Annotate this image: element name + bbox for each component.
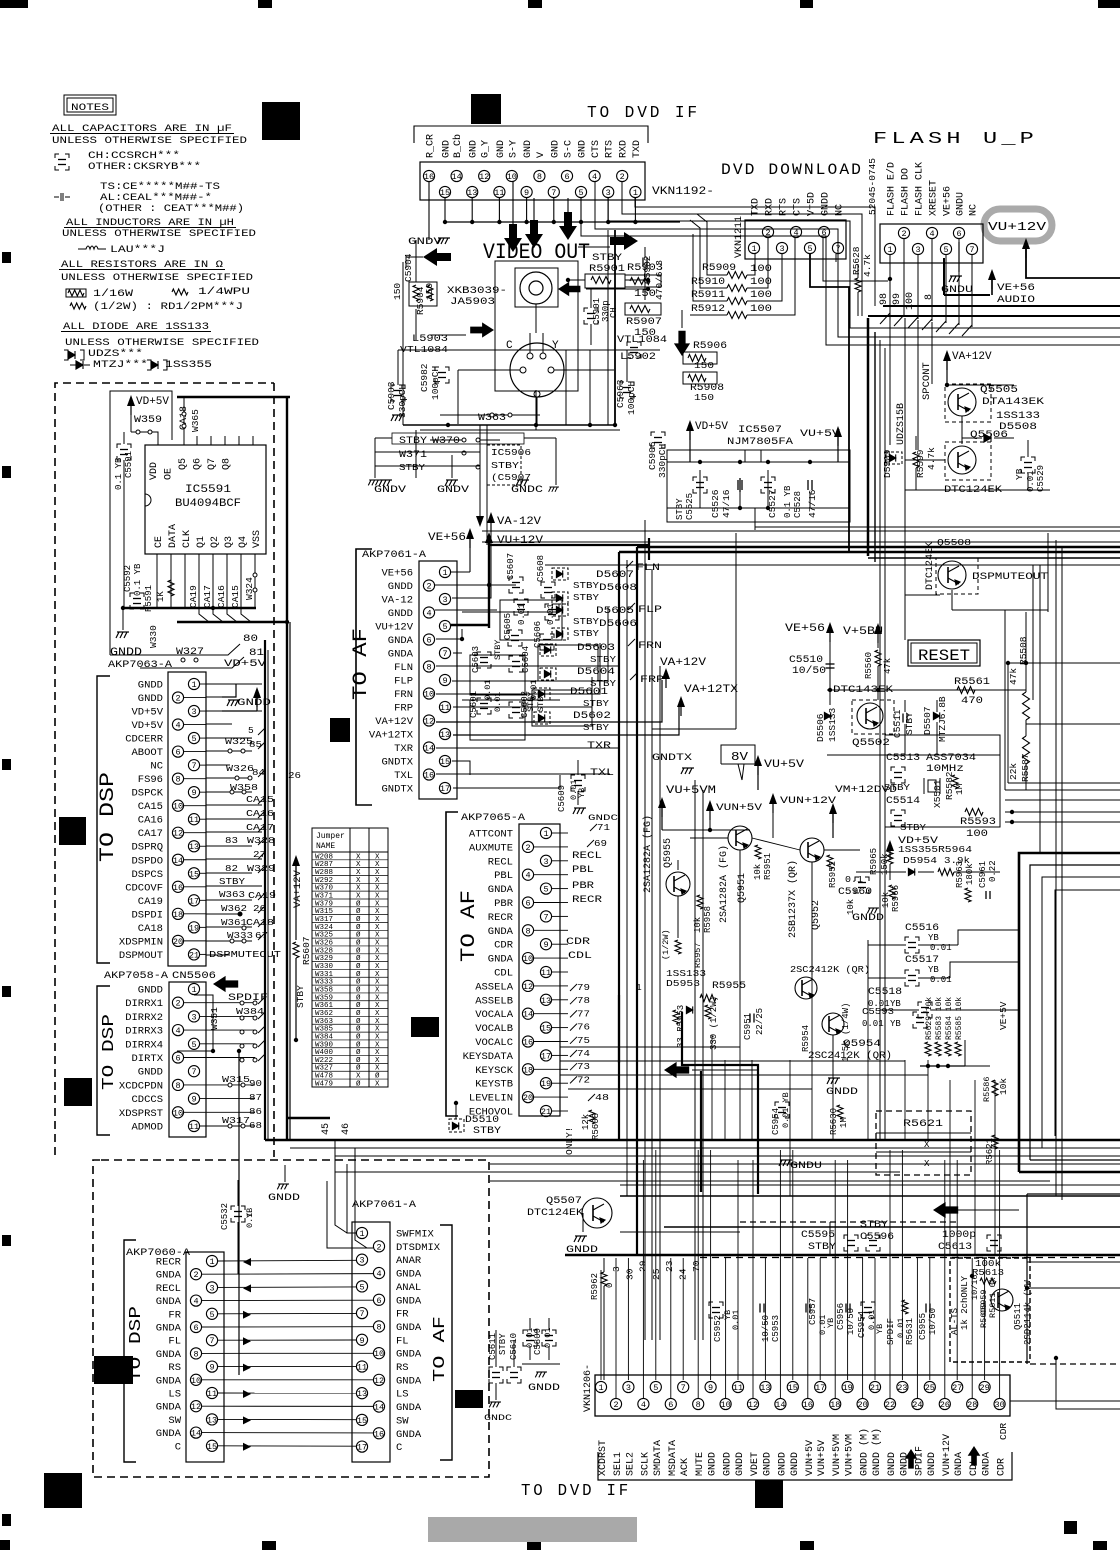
svg-text:VDD: VDD: [149, 462, 160, 480]
svg-text:X: X: [356, 869, 361, 877]
dashed stby line: [740, 1221, 960, 1223]
svg-text:B_Cb: B_Cb: [452, 134, 464, 158]
alignment square I: [455, 1390, 483, 1408]
svg-text:SEL2: SEL2: [625, 1452, 636, 1476]
connector VKN1206-: [595, 1375, 1010, 1416]
mid vertical bus: [618, 552, 620, 1140]
interconnect wires: [218, 1259, 356, 1262]
arrow into video: [423, 248, 451, 266]
svg-text:100: 100: [750, 304, 772, 315]
left vertical bus: [264, 640, 266, 1140]
heavy VU+12V runs: [489, 544, 649, 546]
svg-text:VTL1084: VTL1084: [617, 335, 667, 346]
svg-text:15: 15: [189, 869, 199, 879]
svg-text:X5501: X5501: [932, 779, 943, 808]
svg-text:W333: W333: [315, 979, 334, 987]
svg-text:VE+56: VE+56: [785, 623, 825, 635]
VE+56 arrow reset: [826, 622, 834, 633]
alignment square A: [262, 102, 300, 140]
svg-text:GNDA: GNDA: [982, 1452, 993, 1476]
grey print bar: [428, 1517, 637, 1542]
svg-text:7: 7: [551, 188, 556, 198]
CDR loop bottom right: [1056, 1358, 1120, 1409]
heavy bus stair: [880, 313, 890, 324]
svg-text:CA16: CA16: [216, 585, 227, 608]
svg-text:VKN1206-: VKN1206-: [583, 1364, 594, 1412]
svg-text:W315: W315: [315, 908, 334, 916]
svg-text:SMDATA: SMDATA: [653, 1440, 664, 1476]
svg-text:S-Y: S-Y: [508, 140, 519, 158]
svg-text:FLASH U_P: FLASH U_P: [873, 130, 1038, 149]
svg-text:YB: YB: [890, 999, 901, 1009]
svg-text:85: 85: [249, 739, 262, 750]
svg-text:21: 21: [541, 1107, 551, 1117]
svg-text:W288: W288: [315, 869, 333, 877]
svg-text:VUN+5V: VUN+5V: [817, 1440, 828, 1476]
svg-text:CA16: CA16: [138, 815, 163, 827]
svg-text:X: X: [375, 924, 380, 932]
svg-text:GNDA: GNDA: [156, 1323, 182, 1335]
svg-text:6: 6: [821, 228, 826, 238]
svg-text:VA+12TX: VA+12TX: [369, 730, 414, 742]
AKP7058 pins: [188, 983, 199, 994]
svg-text:46: 46: [341, 1123, 352, 1135]
svg-text:GNDU: GNDU: [956, 192, 967, 216]
svg-text:C: C: [396, 1442, 402, 1454]
svg-text:W479: W479: [315, 1080, 333, 1088]
svg-text:20: 20: [857, 1400, 867, 1410]
svg-text:GNDD: GNDD: [388, 608, 413, 620]
svg-text:12: 12: [191, 1402, 201, 1412]
AKP7061 bracket: [356, 549, 372, 805]
svg-text:R5965: R5965: [869, 848, 879, 875]
svg-text:DSPDI: DSPDI: [131, 909, 163, 921]
svg-text:R5906: R5906: [693, 341, 727, 352]
svg-text:4: 4: [193, 1297, 198, 1307]
svg-text:AKP7061-A: AKP7061-A: [362, 549, 427, 561]
connector VKN1211: [745, 220, 846, 259]
svg-text:IC5591: IC5591: [185, 484, 231, 496]
svg-text:17: 17: [440, 784, 450, 794]
svg-text:4: 4: [426, 609, 431, 619]
svg-text:25: 25: [925, 1383, 935, 1393]
svg-text:4: 4: [376, 1269, 381, 1279]
svg-text:3: 3: [209, 1283, 214, 1293]
svg-text:W384: W384: [315, 1033, 334, 1041]
svg-text:TXL: TXL: [394, 770, 413, 782]
svg-text:R5951: R5951: [763, 853, 773, 880]
svg-text:6: 6: [426, 636, 431, 646]
svg-text:W328: W328: [315, 947, 333, 955]
svg-text:11: 11: [189, 815, 199, 825]
svg-text:0.01: 0.01: [868, 999, 890, 1009]
IC5591 top stubs: [196, 436, 198, 445]
svg-text:W362: W362: [221, 903, 247, 914]
svg-text:X: X: [375, 900, 380, 908]
svg-text:XDSPMIN: XDSPMIN: [119, 936, 163, 948]
svg-text:GNDA: GNDA: [156, 1270, 182, 1282]
signal arrows down: [504, 224, 522, 252]
svg-text:PBL: PBL: [494, 870, 513, 882]
svg-text:C5613: C5613: [938, 1242, 972, 1253]
svg-text:W362: W362: [315, 1010, 333, 1018]
svg-text:GNDA: GNDA: [156, 1375, 182, 1387]
svg-text:(1/2W) : RD1/2PM***J: (1/2W) : RD1/2PM***J: [93, 301, 243, 313]
svg-text:CA19: CA19: [188, 585, 199, 608]
svg-text:KEYSCK: KEYSCK: [475, 1065, 514, 1077]
svg-text:DATA: DATA: [168, 524, 179, 548]
svg-text:X: X: [375, 877, 380, 885]
svg-text:X: X: [375, 869, 380, 877]
svg-text:R5508: R5508: [1018, 636, 1029, 665]
svg-text:1: 1: [442, 568, 447, 578]
svg-text:AKP7061-A: AKP7061-A: [352, 1199, 417, 1211]
cluster wires: [462, 611, 560, 613]
svg-text:R5628: R5628: [851, 246, 862, 275]
svg-text:FRN: FRN: [638, 640, 662, 652]
wires out of AKP7065: [560, 832, 568, 834]
svg-text:(C5907: (C5907: [491, 472, 531, 483]
svg-text:8: 8: [175, 775, 180, 785]
solid box right of AL-TS: [1026, 1194, 1028, 1364]
svg-text:STBY: STBY: [473, 1126, 501, 1137]
svg-text:GND: GND: [442, 140, 453, 158]
svg-text:5: 5: [359, 1282, 364, 1292]
alignment square F: [94, 1356, 133, 1384]
svg-text:16: 16: [173, 883, 183, 893]
svg-text:1K: 1K: [156, 591, 166, 602]
svg-text:9: 9: [191, 1095, 196, 1105]
svg-text:17: 17: [815, 1383, 825, 1393]
svg-text:C5510: C5510: [789, 655, 823, 666]
svg-text:TO AF: TO AF: [350, 628, 373, 700]
svg-text:0.01: 0.01: [543, 1328, 553, 1348]
svg-text:DIRRX4: DIRRX4: [125, 1039, 163, 1051]
bottom trunk lines: [265, 1139, 1120, 1142]
svg-text:8: 8: [426, 663, 431, 673]
svg-text:1: 1: [209, 1257, 214, 1267]
52045 down wires: [889, 255, 891, 315]
svg-text:X: X: [375, 963, 380, 971]
svg-text:D5605: D5605: [596, 606, 634, 617]
svg-text:10: 10: [374, 1349, 384, 1359]
svg-text:TO DSP: TO DSP: [97, 772, 120, 862]
svg-text:4: 4: [929, 229, 934, 239]
svg-text:R5621: R5621: [985, 1138, 995, 1165]
svg-text:5: 5: [943, 245, 948, 255]
GNDD above: [277, 1184, 289, 1189]
mid verticals zone y1040-1140: [711, 1035, 713, 1140]
svg-text:SPDIF: SPDIF: [914, 1446, 925, 1476]
svg-text:CA17: CA17: [246, 822, 274, 833]
svg-text:7: 7: [191, 761, 196, 771]
svg-text:90: 90: [249, 1078, 262, 1089]
svg-text:DIRRX3: DIRRX3: [125, 1026, 163, 1038]
svg-text:18: 18: [830, 1400, 840, 1410]
svg-text:X: X: [375, 916, 380, 924]
svg-text:13: 13: [207, 1415, 217, 1425]
svg-text:W478: W478: [315, 1073, 333, 1081]
GNDD mid: [827, 1078, 840, 1084]
svg-text:R5584 10k: R5584 10k: [945, 997, 954, 1040]
svg-text:X: X: [375, 955, 380, 963]
svg-text:UNLESS OTHERWISE SPECIFIED: UNLESS OTHERWISE SPECIFIED: [61, 272, 253, 284]
SPDIF CDL arrows: [905, 1449, 918, 1469]
svg-text:10/50: 10/50: [846, 1308, 856, 1335]
svg-text:10k: 10k: [693, 917, 703, 933]
svg-text:DTSDMIX: DTSDMIX: [396, 1242, 441, 1254]
mid horizontals zone: [560, 1046, 740, 1048]
svg-text:YB: YB: [826, 1318, 836, 1328]
svg-text:LAU***J: LAU***J: [110, 244, 165, 256]
svg-text:X: X: [356, 885, 361, 893]
svg-text:C5956: C5956: [836, 1303, 846, 1330]
svg-text:27: 27: [952, 1383, 962, 1393]
svg-text:CA15: CA15: [138, 801, 163, 813]
svg-text:VUN+5VM: VUN+5VM: [832, 1434, 843, 1476]
svg-text:GNDA: GNDA: [488, 884, 514, 896]
svg-text:GNDA: GNDA: [156, 1296, 182, 1308]
svg-text:W330: W330: [148, 625, 159, 648]
svg-text:4: 4: [592, 172, 597, 182]
svg-text:2: 2: [613, 1400, 618, 1410]
svg-text:FLASH DO: FLASH DO: [901, 168, 912, 216]
reset wires: [827, 689, 1026, 691]
svg-text:15: 15: [440, 188, 450, 198]
svg-text:2: 2: [525, 843, 530, 853]
svg-text:CA19: CA19: [138, 896, 163, 908]
svg-text:X: X: [375, 1010, 380, 1018]
IC5591 enclosure: [110, 391, 172, 655]
svg-text:AL-TS: AL-TS: [950, 1308, 960, 1335]
svg-text:X: X: [356, 1073, 361, 1081]
svg-text:ANAR: ANAR: [396, 1255, 422, 1267]
svg-text:Ø: Ø: [356, 1017, 361, 1026]
svg-text:S-C: S-C: [564, 140, 575, 158]
svg-text:4: 4: [175, 1026, 180, 1036]
svg-text:PBR: PBR: [572, 881, 594, 892]
highlight VU+12V stadium: [984, 209, 1052, 241]
svg-text:C5953: C5953: [771, 1315, 781, 1342]
svg-text:W329: W329: [315, 955, 333, 963]
svg-text:13: 13: [467, 188, 477, 198]
svg-text:100: 100: [905, 292, 916, 310]
Q5505 wires: [947, 384, 1014, 386]
svg-text:C5596: C5596: [860, 1232, 894, 1243]
svg-text:4: 4: [175, 721, 180, 731]
svg-text:GNDA: GNDA: [396, 1269, 422, 1281]
svg-text:3: 3: [779, 244, 784, 254]
svg-text:KEYSDATA: KEYSDATA: [463, 1051, 514, 1063]
R5620b: [970, 1274, 974, 1278]
svg-text:2: 2: [901, 229, 906, 239]
svg-text:9: 9: [708, 1383, 713, 1393]
svg-text:C5951: C5951: [743, 1013, 753, 1040]
VA+12V arrow: [943, 350, 951, 361]
svg-text:GNDD: GNDD: [790, 1452, 801, 1476]
svg-text:1/16W: 1/16W: [93, 288, 134, 300]
svg-text:C5513: C5513: [886, 753, 920, 764]
svg-text:14: 14: [523, 1010, 533, 1020]
svg-text:R5964: R5964: [938, 844, 972, 855]
svg-text:AUDIO: AUDIO: [997, 294, 1035, 306]
svg-text:R5903: R5903: [627, 263, 663, 274]
svg-text:4.7k: 4.7k: [862, 254, 873, 277]
svg-text:X: X: [375, 1033, 380, 1041]
svg-text:VD+5V: VD+5V: [131, 720, 163, 732]
svg-text:12: 12: [479, 172, 489, 182]
svg-text:Ø: Ø: [356, 931, 361, 940]
VKN1192 right-side wires: [635, 198, 875, 306]
svg-text:8: 8: [696, 1400, 701, 1410]
svg-text:W330: W330: [315, 963, 334, 971]
svg-text:C5511: C5511: [892, 709, 903, 738]
svg-text:(OTHER : CEAT***M##): (OTHER : CEAT***M##): [98, 203, 244, 215]
svg-text:ASSELA: ASSELA: [475, 981, 514, 993]
svg-text:SW: SW: [396, 1415, 409, 1427]
STBY W370 row boxes: [392, 433, 524, 444]
svg-text:V: V: [536, 152, 547, 158]
svg-text:R5560: R5560: [864, 652, 874, 679]
svg-text:W385: W385: [315, 1026, 334, 1034]
svg-text:C5608: C5608: [536, 555, 546, 582]
svg-text:15: 15: [440, 757, 450, 767]
svg-text:Ø: Ø: [356, 923, 361, 932]
svg-text:R5957: R5957: [693, 942, 703, 968]
svg-text:100: 100: [750, 290, 772, 301]
svg-text:CDR: CDR: [566, 937, 590, 948]
svg-text:W326: W326: [226, 763, 254, 774]
svg-text:JA5903: JA5903: [450, 296, 495, 308]
svg-text:STBY: STBY: [573, 617, 600, 627]
svg-text:Q5511: Q5511: [1013, 1303, 1023, 1330]
svg-text:Q5951: Q5951: [737, 873, 748, 903]
svg-text:VUN+12V: VUN+12V: [780, 795, 837, 807]
svg-text:Q5: Q5: [178, 458, 189, 470]
VKN1192 bracket: [414, 126, 648, 143]
svg-text:12: 12: [374, 1376, 384, 1386]
svg-text:87: 87: [249, 1092, 262, 1103]
svg-text:FRP: FRP: [394, 703, 413, 715]
middle wires: [677, 896, 679, 938]
svg-text:47k: 47k: [1008, 668, 1019, 685]
svg-text:73: 73: [577, 1061, 590, 1072]
svg-text:10/50: 10/50: [792, 665, 826, 677]
svg-text:FLP: FLP: [394, 676, 413, 688]
svg-text:X: X: [375, 1049, 380, 1057]
svg-text:TO DVD IF: TO DVD IF: [587, 104, 700, 123]
svg-text:C5982: C5982: [419, 363, 430, 392]
svg-text:DTC124EK: DTC124EK: [925, 542, 936, 590]
52045 pin verticals: [889, 315, 891, 445]
svg-text:VU+5V: VU+5V: [800, 428, 841, 440]
svg-text:72: 72: [577, 1074, 590, 1085]
svg-text:150: 150: [694, 392, 714, 403]
heavy audio stair wires: [682, 1012, 758, 1194]
svg-text:Ø: Ø: [356, 946, 361, 955]
svg-text:GNDA: GNDA: [156, 1402, 182, 1414]
svg-text:83: 83: [225, 835, 238, 846]
svg-text:21: 21: [189, 950, 199, 960]
wires from R to left: [697, 214, 727, 275]
svg-text:MSDATA: MSDATA: [668, 1440, 679, 1476]
CA18 feed: [177, 396, 290, 399]
slash breaks right of AKP7063: [258, 728, 265, 735]
right-top horizontal band: [883, 305, 1120, 307]
svg-text:GNDD: GNDD: [138, 985, 163, 997]
svg-text:STBY: STBY: [219, 876, 245, 887]
svg-text:VA-12: VA-12: [381, 595, 413, 607]
AKP7061B pins: [356, 1227, 367, 1238]
svg-text:C5955: C5955: [918, 1313, 928, 1340]
AKP7058 tap circles: [240, 1001, 244, 1005]
svg-text:1: 1: [191, 680, 196, 690]
svg-text:NC: NC: [150, 761, 163, 773]
svg-text:3: 3: [359, 1256, 364, 1266]
svg-text:0.1 YB: 0.1 YB: [114, 457, 124, 490]
svg-text:C5514: C5514: [886, 796, 920, 807]
svg-text:IC5906: IC5906: [491, 447, 531, 458]
wires video bottom: [398, 349, 660, 351]
svg-text:FLASH E/D: FLASH E/D: [886, 162, 898, 216]
svg-text:AKP7063-A: AKP7063-A: [108, 659, 173, 671]
svg-text:Ø: Ø: [356, 962, 361, 971]
svg-text:0.22: 0.22: [988, 860, 998, 882]
svg-text:GNDD: GNDD: [110, 647, 142, 659]
svg-text:3: 3: [626, 1383, 631, 1393]
svg-text:98: 98: [879, 293, 890, 305]
svg-text:D5954: D5954: [903, 855, 937, 866]
svg-text:SCLK: SCLK: [640, 1452, 651, 1476]
feeds into AKP7061B: [327, 1181, 373, 1248]
transistor Q5954: [822, 1013, 844, 1035]
svg-text:G_Y: G_Y: [481, 140, 492, 158]
VKN1211 pins: [748, 242, 759, 253]
svg-text:0.01: 0.01: [517, 603, 527, 625]
heavy trunk wires: [482, 530, 1120, 532]
VKN1211 wires: [747, 254, 755, 275]
svg-text:30: 30: [624, 1268, 635, 1280]
svg-text:DIRTX: DIRTX: [131, 1053, 163, 1065]
svg-text:13: 13: [440, 730, 450, 740]
gnd bus under IC5591: [123, 607, 256, 609]
regulator wires: [667, 461, 850, 463]
svg-text:R5962: R5962: [590, 1273, 600, 1300]
52045 pins: [884, 243, 895, 254]
svg-text:DSPMUTEOUT: DSPMUTEOUT: [972, 571, 1048, 583]
svg-text:BU4094BCF: BU4094BCF: [175, 498, 241, 510]
svg-text:C5952: C5952: [713, 1315, 723, 1342]
svg-text:16: 16: [523, 1038, 533, 1048]
svg-text:Ø: Ø: [356, 993, 361, 1002]
svg-text:10k: 10k: [753, 864, 763, 880]
svg-text:STBY: STBY: [399, 436, 427, 447]
svg-text:VE+56: VE+56: [997, 282, 1035, 294]
svg-text:C5603: C5603: [471, 646, 481, 673]
svg-text:80: 80: [243, 634, 258, 645]
svg-text:ATTCONT: ATTCONT: [469, 829, 513, 841]
svg-text:VDET: VDET: [750, 1452, 761, 1476]
svg-text:15: 15: [357, 1416, 367, 1426]
svg-text:3: 3: [442, 595, 447, 605]
svg-text:13: 13: [541, 996, 551, 1006]
svg-text:GNDD: GNDD: [708, 1452, 719, 1476]
svg-text:X: X: [356, 892, 361, 900]
svg-text:VA+12TX: VA+12TX: [684, 684, 738, 696]
connector 52045-0745: [880, 224, 983, 263]
svg-text:W317: W317: [315, 916, 333, 924]
svg-text:Q5506: Q5506: [970, 429, 1008, 441]
